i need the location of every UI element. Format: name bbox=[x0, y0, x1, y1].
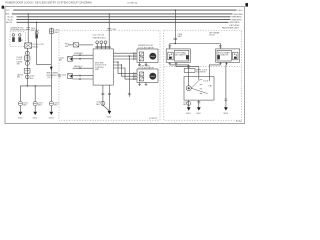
inline component K2 bbox=[184, 68, 195, 72]
ground G501 bbox=[187, 107, 191, 110]
svg-text:LOCK ACTUATOR: LOCK ACTUATOR bbox=[138, 46, 154, 49]
right pins to actuator A bbox=[113, 52, 137, 54]
svg-text:No.47: No.47 bbox=[8, 19, 15, 21]
left pin y68.2 bbox=[73, 67, 94, 69]
connector ticks V1 bbox=[26, 27, 30, 29]
svg-text:RELAY: RELAY bbox=[32, 45, 39, 48]
svg-text:(CONT'D): (CONT'D) bbox=[128, 3, 138, 5]
diagonal join bbox=[103, 105, 110, 111]
connector circle C5 bbox=[101, 101, 105, 105]
page border frame bbox=[5, 7, 245, 124]
page marker right bbox=[245, 3, 248, 7]
svg-text:G501: G501 bbox=[186, 113, 191, 115]
ground G503 bbox=[224, 107, 228, 110]
svg-text:12-34: 12-34 bbox=[236, 121, 242, 123]
dashed box right area bbox=[164, 30, 242, 120]
actuator A bottom stubs bbox=[139, 62, 141, 66]
svg-text:No.52: No.52 bbox=[8, 17, 15, 19]
actuator B box bbox=[137, 69, 158, 82]
svg-text:SW: SW bbox=[17, 77, 20, 79]
wire w4 ground drop bbox=[225, 64, 228, 66]
cylinder symbol bbox=[186, 86, 191, 91]
switch box S5 bbox=[24, 69, 30, 74]
svg-text:SW: SW bbox=[59, 60, 62, 62]
switch S3 bbox=[68, 74, 73, 79]
ticks wires A bbox=[133, 52, 135, 60]
actuator B bottom stubs bbox=[139, 82, 141, 86]
wire V2 drop bbox=[108, 14, 110, 49]
switch arms bbox=[191, 80, 200, 88]
svg-text:G402: G402 bbox=[33, 117, 38, 119]
fuse F3 on drop bbox=[36, 22, 38, 64]
connector circle C3 bbox=[25, 61, 29, 65]
switch box S4 bbox=[24, 56, 30, 60]
left pin y58.8 with switch S2 bbox=[73, 58, 94, 60]
bus wire L2 bbox=[12, 13, 233, 15]
svg-text:RED/BLU: RED/BLU bbox=[74, 66, 83, 68]
ground G502 bbox=[197, 107, 201, 110]
U1 bottom stub right bbox=[108, 85, 110, 111]
svg-text:POWER DOOR LOCKS / KEYLESS ENT: POWER DOOR LOCKS / KEYLESS ENTRY SYSTEM … bbox=[5, 2, 91, 5]
svg-text:LOCK: LOCK bbox=[203, 80, 209, 82]
svg-text:GRN/RED: GRN/RED bbox=[231, 17, 242, 19]
wire column stack bbox=[26, 48, 28, 86]
dashed box fuse box bbox=[10, 32, 25, 47]
svg-text:ACTUATOR: ACTUATOR bbox=[175, 54, 186, 57]
svg-text:KEYLESS: KEYLESS bbox=[229, 25, 240, 27]
svg-text:(12-2): (12-2) bbox=[47, 77, 52, 79]
svg-text:SW: SW bbox=[17, 64, 20, 66]
actuator TR-L bottom stubs bbox=[169, 62, 171, 65]
svg-text:WHT/BLK: WHT/BLK bbox=[233, 14, 243, 16]
dashed partition horizontal bbox=[164, 65, 242, 67]
actuator A box bbox=[137, 49, 158, 62]
svg-text:G403: G403 bbox=[49, 117, 54, 119]
svg-text:G404: G404 bbox=[106, 117, 111, 119]
left pin y75.6 with switch S3 bbox=[73, 75, 94, 77]
wire jog to V5 bbox=[37, 64, 52, 66]
svg-text:FUSE/RELAY BOX: FUSE/RELAY BOX bbox=[10, 29, 27, 32]
diode D1 top of V5 bbox=[50, 28, 52, 86]
fuse F2 bbox=[18, 34, 21, 37]
actuator TR-R box bbox=[216, 49, 240, 62]
wire V3 drop bbox=[174, 10, 176, 43]
feed split bbox=[170, 44, 221, 49]
U1 bottom stub left bbox=[102, 85, 104, 106]
left pin y55 bbox=[73, 54, 94, 56]
dashed box driver door bbox=[59, 30, 160, 120]
bus wire L5 bbox=[17, 21, 229, 23]
svg-text:G502: G502 bbox=[196, 113, 201, 115]
svg-text:C581: C581 bbox=[112, 29, 117, 31]
junction wire down bbox=[129, 55, 130, 56]
svg-text:SW: SW bbox=[65, 46, 68, 48]
fuse F1 bbox=[12, 34, 15, 37]
svg-text:LOCK ACTUATOR: LOCK ACTUATOR bbox=[138, 67, 154, 70]
svg-text:RECEIVER UNIT: RECEIVER UNIT bbox=[222, 28, 240, 30]
wire w3 to key cylinder bbox=[209, 65, 220, 77]
ground chain 2 bbox=[33, 102, 37, 106]
bus wire L4 bbox=[17, 19, 231, 21]
key cyl bottom stub 1 bbox=[188, 100, 190, 107]
svg-text:No.18: No.18 bbox=[6, 22, 13, 24]
key cylinder switch box bbox=[184, 77, 214, 101]
page marker left bbox=[2, 6, 5, 9]
svg-text:SW: SW bbox=[58, 77, 61, 79]
ground chain 1 bbox=[18, 102, 22, 106]
wire w1 to key cylinder bbox=[170, 65, 189, 77]
key cyl bottom stub 2 bbox=[198, 100, 200, 107]
dashed partition line bbox=[163, 30, 165, 120]
connector circle C4 bbox=[26, 75, 30, 79]
svg-text:SOLENOID: SOLENOID bbox=[196, 72, 206, 74]
bus wire L1 bbox=[13, 9, 236, 11]
svg-text:C11 C12 C13: C11 C12 C13 bbox=[93, 35, 104, 37]
svg-text:C512: C512 bbox=[237, 10, 243, 12]
svg-text:GRN RED BLU: GRN RED BLU bbox=[93, 37, 107, 39]
svg-text:G401: G401 bbox=[18, 117, 23, 119]
svg-text:(CONT'D): (CONT'D) bbox=[149, 118, 158, 120]
stub circles above U1 bbox=[96, 44, 98, 49]
actuator TR-L box bbox=[166, 49, 190, 62]
relay K1 box with X bbox=[25, 43, 32, 48]
arrow continuation bbox=[50, 67, 53, 71]
contacts bbox=[200, 79, 203, 81]
connector circle C2 bbox=[25, 51, 29, 55]
control unit U1 bbox=[93, 49, 113, 85]
svg-text:WHT/RED: WHT/RED bbox=[229, 22, 240, 24]
svg-text:G503: G503 bbox=[223, 113, 228, 115]
svg-text:DOOR: DOOR bbox=[209, 35, 215, 37]
ticks wires B bbox=[133, 72, 135, 80]
motor M2 bbox=[149, 73, 156, 80]
switch S2 bbox=[68, 56, 73, 61]
actuator TR-R bottom stubs bbox=[219, 62, 221, 65]
ground bus bbox=[20, 86, 51, 102]
motor M1 bbox=[149, 53, 156, 60]
ground chain 3 bbox=[49, 102, 53, 106]
wire V1 drop bbox=[27, 14, 29, 43]
wire w2 to key cylinder bbox=[176, 67, 199, 77]
left pin y79 bbox=[73, 78, 94, 80]
svg-text:RED: RED bbox=[54, 32, 59, 34]
svg-text:GRN/WHT: GRN/WHT bbox=[74, 53, 84, 55]
right pins to actuator B bbox=[113, 62, 137, 73]
switch S1 top bbox=[73, 43, 79, 47]
ground G404 bbox=[108, 111, 112, 114]
bus wire L3 bbox=[17, 16, 231, 18]
connector tick rows above U1 bbox=[95, 45, 111, 47]
svg-text:41: 41 bbox=[21, 40, 23, 42]
